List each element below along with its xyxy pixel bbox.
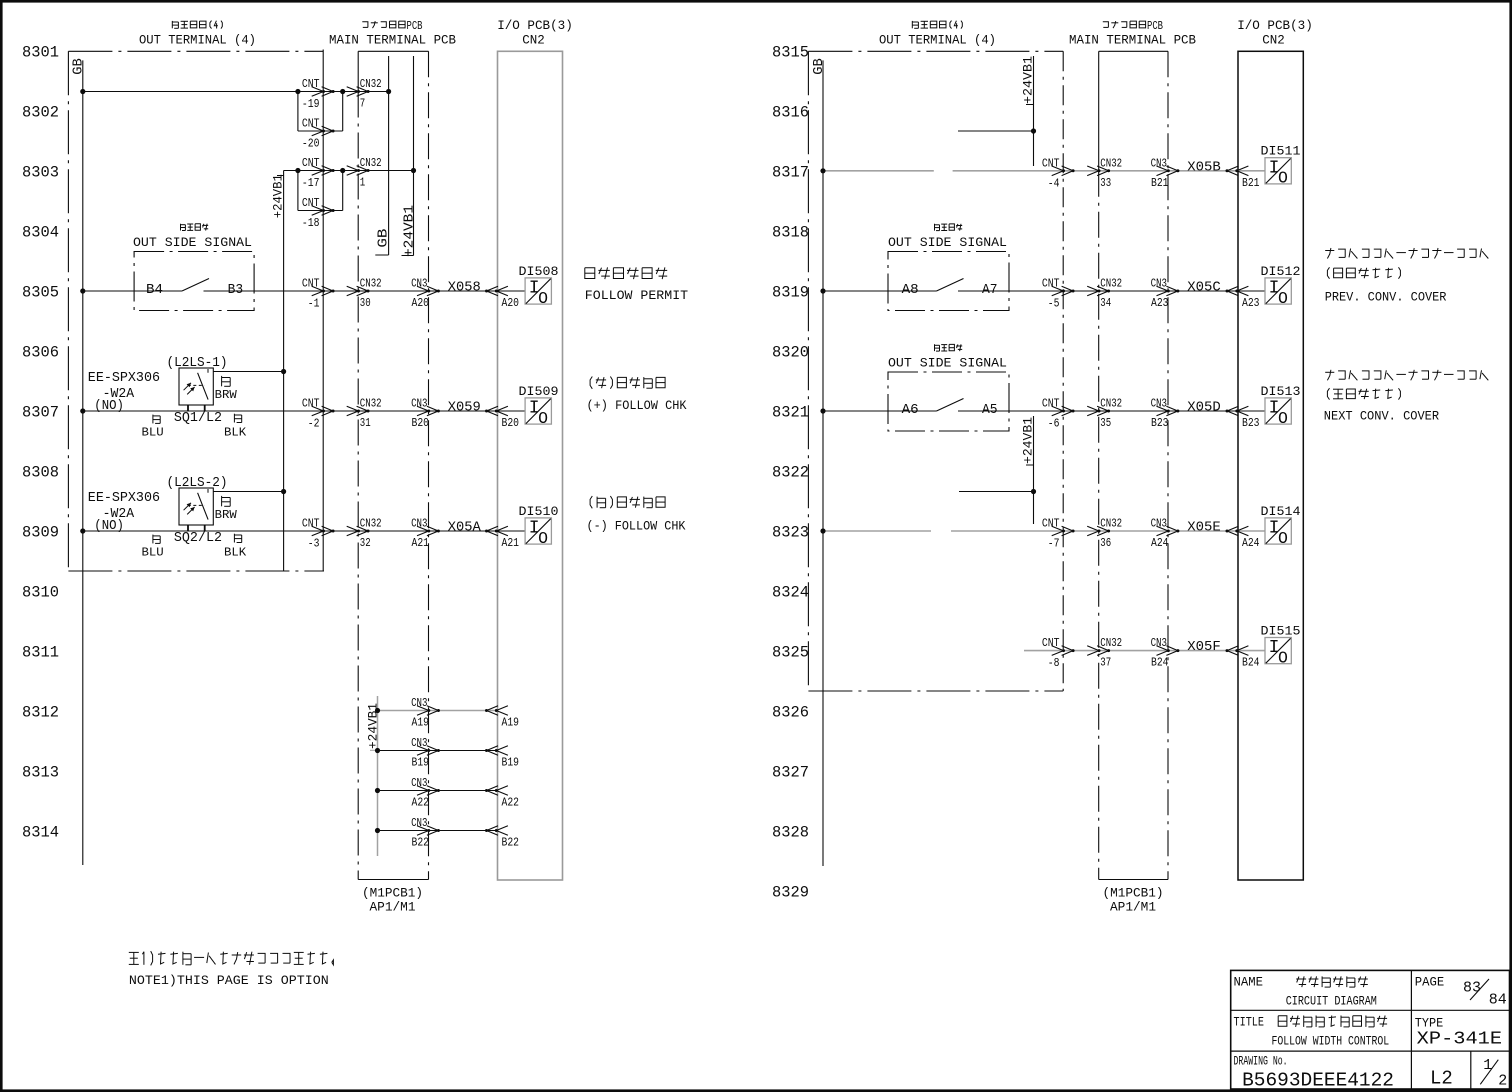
connector CNT-6 bbox=[1052, 406, 1075, 416]
svg-text:84: 84 bbox=[1489, 992, 1507, 1009]
box OUT SIDE SIGNAL A6-A5 bbox=[888, 372, 1009, 431]
svg-text:A19: A19 bbox=[502, 716, 520, 730]
wire row 8322 to +24VB1 bbox=[959, 491, 1034, 493]
svg-text:CN32: CN32 bbox=[360, 77, 382, 91]
svg-text:O: O bbox=[1278, 289, 1288, 308]
svg-text:(L2LS-2): (L2LS-2) bbox=[167, 476, 228, 491]
MAIN TERMINAL PCB box right bbox=[1099, 51, 1168, 879]
svg-text:8310: 8310 bbox=[22, 584, 59, 602]
label 外部信号 right A8 bbox=[935, 224, 963, 231]
svg-text:83: 83 bbox=[1463, 979, 1481, 996]
label OUT TERMINAL header (JP) right bbox=[912, 21, 962, 29]
svg-text:(M1PCB1): (M1PCB1) bbox=[1103, 886, 1164, 901]
svg-text:CN3: CN3 bbox=[1151, 156, 1167, 170]
wire jumper left -17/-18 bbox=[297, 171, 299, 211]
svg-text:B24: B24 bbox=[1151, 656, 1169, 670]
svg-text:BRW: BRW bbox=[215, 388, 238, 402]
svg-text:GB: GB bbox=[811, 58, 827, 75]
wire X05B connectors to DI bbox=[1063, 170, 1238, 172]
svg-text:8324: 8324 bbox=[772, 584, 809, 602]
svg-text:CN3: CN3 bbox=[411, 517, 427, 531]
svg-text:(L2LS-1): (L2LS-1) bbox=[167, 356, 228, 371]
svg-text:O: O bbox=[1278, 409, 1288, 428]
svg-text:8325: 8325 bbox=[772, 644, 809, 662]
svg-text:DI513: DI513 bbox=[1261, 384, 1301, 399]
svg-text:MAIN TERMINAL PCB: MAIN TERMINAL PCB bbox=[329, 33, 456, 48]
svg-text:CNT: CNT bbox=[302, 397, 320, 411]
slash page bbox=[1470, 979, 1489, 1000]
junction +24VB1 bus L2LS-1 bbox=[281, 369, 286, 374]
svg-text:8313: 8313 bbox=[22, 764, 59, 782]
svg-text:I/O PCB(3): I/O PCB(3) bbox=[1237, 18, 1313, 33]
label （前工程より） bbox=[1327, 267, 1400, 278]
svg-text:A20: A20 bbox=[502, 296, 520, 310]
svg-text:8304: 8304 bbox=[22, 224, 59, 242]
svg-text:8312: 8312 bbox=[22, 704, 59, 722]
svg-text:O: O bbox=[538, 409, 548, 428]
input DI510 bbox=[525, 518, 551, 548]
svg-text:8302: 8302 bbox=[22, 104, 59, 122]
svg-text:8319: 8319 bbox=[772, 284, 809, 302]
svg-text:A19: A19 bbox=[412, 716, 430, 730]
wire jumper right -17/-18 bbox=[342, 171, 344, 211]
svg-text:CN32: CN32 bbox=[1100, 156, 1122, 170]
label 外部信号 right A6 bbox=[935, 344, 963, 351]
switch A6-A5 bbox=[823, 399, 1063, 412]
svg-text:8329: 8329 bbox=[772, 884, 809, 902]
svg-text:BLU: BLU bbox=[142, 426, 164, 440]
connector CN2 B20 bbox=[485, 406, 508, 416]
wire row 8307 bbox=[83, 410, 323, 412]
MAIN TERMINAL PCB box left bbox=[358, 51, 428, 879]
tick +24VB1 right mid bbox=[1026, 464, 1034, 466]
svg-text:(NO): (NO) bbox=[94, 519, 124, 534]
svg-text:B22: B22 bbox=[412, 836, 430, 850]
connector CNT-8 bbox=[1052, 646, 1075, 656]
svg-text:8318: 8318 bbox=[772, 224, 809, 242]
svg-text:X05A: X05A bbox=[448, 520, 482, 536]
junction GB bus A6 bbox=[820, 408, 825, 413]
svg-text:CNT: CNT bbox=[1042, 636, 1060, 650]
label MAIN TERMINAL header (JP) left bbox=[362, 20, 422, 33]
wire +24VB1 to CNT-17/CN32-1 bbox=[284, 170, 414, 172]
svg-text:GB: GB bbox=[71, 58, 87, 75]
junction +24VB1 bus L2LS-2 bbox=[281, 489, 286, 494]
svg-text:B3: B3 bbox=[228, 282, 244, 298]
svg-text:CNT: CNT bbox=[302, 156, 320, 170]
wire X05C connectors to DI bbox=[1063, 290, 1238, 292]
svg-text:NEXT CONV. COVER: NEXT CONV. COVER bbox=[1324, 408, 1440, 423]
connector CN32-32 bbox=[347, 526, 370, 536]
svg-text:B20: B20 bbox=[412, 416, 430, 430]
junction GB bus row8301 bbox=[80, 89, 85, 94]
wire GB bus left bbox=[82, 60, 84, 865]
svg-text:1: 1 bbox=[360, 176, 365, 190]
junction GB bus A8 bbox=[820, 288, 825, 293]
svg-text:CN3: CN3 bbox=[411, 776, 427, 790]
svg-text:A23: A23 bbox=[1242, 296, 1260, 310]
svg-text:O: O bbox=[1278, 169, 1288, 188]
junction GB bus row8307 bbox=[80, 408, 85, 413]
svg-text:CNT: CNT bbox=[302, 517, 320, 531]
wire BRW L2LS-2 to +24VB1 bus bbox=[213, 491, 283, 493]
connector CN3-A24 bbox=[1157, 526, 1180, 536]
input DI508 bbox=[525, 278, 551, 308]
label 電気回路線図 bbox=[1296, 976, 1368, 987]
connector CNT-18 bbox=[312, 206, 335, 216]
connector CN3-B24 bbox=[1157, 646, 1180, 656]
input DI509 bbox=[525, 398, 551, 428]
svg-text:CN2: CN2 bbox=[522, 33, 545, 48]
svg-text:8307: 8307 bbox=[22, 404, 59, 422]
connector CN2 B19 bbox=[485, 746, 508, 756]
label 黒 L2LS-2 bbox=[234, 534, 241, 543]
connector CN3-A19 bbox=[417, 706, 440, 716]
svg-text:(NO): (NO) bbox=[94, 399, 124, 414]
svg-text:-17: -17 bbox=[302, 176, 320, 190]
junction GB stub row8301 bbox=[386, 89, 391, 94]
connector CNT-4 bbox=[1052, 166, 1075, 176]
connector CN3-A23 bbox=[1157, 286, 1180, 296]
connector CN2 A19 bbox=[485, 706, 508, 716]
wire X05F connectors to DI bbox=[1063, 650, 1238, 652]
svg-text:CNT: CNT bbox=[1042, 156, 1060, 170]
label 追従許可入力 bbox=[585, 267, 667, 279]
junction GB bus row8317 bbox=[820, 168, 825, 173]
svg-text:36: 36 bbox=[1100, 536, 1111, 550]
wire row 8316 to +24VB1 bbox=[958, 130, 1034, 132]
svg-text:X05D: X05D bbox=[1187, 400, 1221, 416]
svg-text:SQ1/L2: SQ1/L2 bbox=[174, 411, 222, 426]
svg-text:CN2: CN2 bbox=[1262, 33, 1285, 48]
svg-text:8317: 8317 bbox=[772, 164, 809, 182]
input DI513 bbox=[1265, 398, 1291, 428]
connector CN3-A20 bbox=[417, 286, 440, 296]
svg-text:8309: 8309 bbox=[22, 524, 59, 542]
tick GB mid bbox=[375, 254, 388, 256]
wire row y650.6 (X05F) bbox=[1024, 650, 1063, 652]
svg-text:(M1PCB1): (M1PCB1) bbox=[362, 886, 423, 901]
svg-text:BLK: BLK bbox=[224, 426, 247, 440]
svg-text:7: 7 bbox=[360, 97, 365, 111]
connector CN2 B23 right bbox=[1226, 406, 1249, 416]
junction +24VB1 stub B19 bbox=[375, 748, 380, 753]
svg-text:32: 32 bbox=[360, 536, 371, 550]
svg-text:X05B: X05B bbox=[1187, 159, 1221, 175]
box OUT SIDE SIGNAL A8-A7 bbox=[888, 252, 1009, 311]
label (+)追従確認 bbox=[590, 377, 665, 389]
switch B4-B3 bbox=[83, 279, 323, 292]
connector CN3-B22 bbox=[417, 826, 440, 836]
svg-text:NOTE1)THIS PAGE IS OPTION: NOTE1)THIS PAGE IS OPTION bbox=[129, 974, 329, 988]
connector CN32-33 bbox=[1087, 166, 1110, 176]
connector CNT-19 bbox=[312, 87, 335, 97]
svg-text:35: 35 bbox=[1100, 416, 1111, 430]
svg-text:+24VB1: +24VB1 bbox=[271, 174, 286, 218]
svg-text:34: 34 bbox=[1100, 296, 1111, 310]
net stub GB mid bbox=[388, 56, 390, 255]
svg-text:B23: B23 bbox=[1242, 416, 1260, 430]
svg-text:CNT: CNT bbox=[302, 277, 320, 291]
connector CN3-B23 bbox=[1157, 406, 1180, 416]
net stub +24VB1 bottom left (gray) bbox=[377, 696, 379, 856]
svg-text:8321: 8321 bbox=[772, 404, 809, 422]
junction +24VB1 stub B22 bbox=[375, 828, 380, 833]
svg-text:DI509: DI509 bbox=[519, 384, 559, 399]
svg-text:O: O bbox=[538, 289, 548, 308]
svg-text:OUT TERMINAL (4): OUT TERMINAL (4) bbox=[139, 33, 256, 48]
svg-text:A24: A24 bbox=[1151, 536, 1169, 550]
svg-text:OUT SIDE SIGNAL: OUT SIDE SIGNAL bbox=[888, 355, 1007, 370]
connector CN3-B21 bbox=[1157, 166, 1180, 176]
label 黒 L2LS-1 bbox=[234, 414, 241, 423]
connector CN2 A21 bbox=[485, 526, 508, 536]
svg-text:B: B bbox=[1158, 20, 1163, 33]
wire X05E connectors to DI bbox=[1063, 530, 1238, 532]
junction +24VB1 stub A19 bbox=[375, 708, 380, 713]
connector CNT-17 bbox=[312, 166, 335, 176]
svg-text:X05F: X05F bbox=[1187, 639, 1221, 655]
input DI514 bbox=[1265, 518, 1291, 548]
svg-text:FOLLOW PERMIT: FOLLOW PERMIT bbox=[585, 288, 688, 303]
svg-text:A21: A21 bbox=[412, 536, 430, 550]
net stub +24VB1 right mid bbox=[1033, 416, 1035, 524]
svg-text:O: O bbox=[1278, 529, 1288, 548]
pins L2LS-1 to wire bbox=[187, 405, 189, 411]
connector CN3-B20 bbox=[417, 406, 440, 416]
svg-text:2: 2 bbox=[1498, 1072, 1507, 1089]
connector CN2 B22 bbox=[485, 826, 508, 836]
svg-text:CN3: CN3 bbox=[411, 816, 427, 830]
svg-text:CN32: CN32 bbox=[360, 156, 382, 170]
svg-text:CN3: CN3 bbox=[411, 696, 427, 710]
svg-text:OUT SIDE SIGNAL: OUT SIDE SIGNAL bbox=[133, 235, 252, 250]
connector CN32-31 bbox=[347, 406, 370, 416]
svg-text:A23: A23 bbox=[1151, 296, 1169, 310]
svg-text:B20: B20 bbox=[502, 416, 520, 430]
wire row 8309 bbox=[83, 530, 323, 532]
svg-text:8303: 8303 bbox=[22, 164, 59, 182]
wire GB to CNT-19/CN32-7 bbox=[83, 91, 389, 93]
svg-text:X05E: X05E bbox=[1187, 520, 1221, 536]
wire jumper left -19/-20 bbox=[297, 92, 299, 132]
svg-text:A8: A8 bbox=[902, 282, 919, 298]
svg-text:BRW: BRW bbox=[215, 508, 238, 522]
connector CN32-36 bbox=[1087, 526, 1110, 536]
connector CNT-7 bbox=[1052, 526, 1075, 536]
label MAIN TERMINAL header (JP) right bbox=[1103, 20, 1163, 33]
label コンベヤカバーインターロック 1 bbox=[1325, 248, 1488, 259]
svg-text:O: O bbox=[538, 529, 548, 548]
svg-text:CN3: CN3 bbox=[411, 736, 427, 750]
connector CN32-7 bbox=[347, 87, 370, 97]
svg-text:B21: B21 bbox=[1151, 176, 1169, 190]
junction jumper left CNT-19 bbox=[295, 89, 300, 94]
svg-text:MAIN TERMINAL PCB: MAIN TERMINAL PCB bbox=[1069, 33, 1196, 48]
connector CN3-A22 bbox=[417, 786, 440, 796]
svg-text:CN32: CN32 bbox=[1100, 636, 1122, 650]
I/O PCB(3) CN2 box left bbox=[498, 51, 563, 880]
label 外部信号 left bbox=[181, 224, 209, 231]
label OUT TERMINAL header (JP) left bbox=[172, 21, 222, 29]
connector CNT-1 bbox=[312, 286, 335, 296]
label 青 L2LS-2 bbox=[153, 535, 160, 544]
svg-text:PAGE: PAGE bbox=[1415, 976, 1444, 990]
svg-text:A7: A7 bbox=[982, 282, 998, 298]
svg-text:L2: L2 bbox=[1430, 1067, 1453, 1089]
svg-text:X058: X058 bbox=[448, 280, 481, 296]
svg-text:OUT SIDE SIGNAL: OUT SIDE SIGNAL bbox=[888, 235, 1007, 250]
svg-text:-8: -8 bbox=[1048, 656, 1060, 670]
connector CNT-2 bbox=[312, 406, 335, 416]
svg-text:8306: 8306 bbox=[22, 344, 59, 362]
wire row B19 bbox=[378, 750, 498, 752]
sensor SQ2/L2 L2LS-2 bbox=[179, 488, 213, 525]
connector CNT-20 bbox=[312, 126, 335, 136]
svg-text:B24: B24 bbox=[1242, 656, 1260, 670]
svg-text:-19: -19 bbox=[302, 97, 320, 111]
svg-text:8316: 8316 bbox=[772, 104, 809, 122]
svg-text:8320: 8320 bbox=[772, 344, 809, 362]
connector CN2 B24 right bbox=[1226, 646, 1249, 656]
junction GB bus row8309 bbox=[80, 528, 85, 533]
svg-text:-1: -1 bbox=[308, 297, 320, 311]
svg-text:8305: 8305 bbox=[22, 284, 59, 302]
junction GB bus row8305 bbox=[80, 288, 85, 293]
wire row B22 bbox=[378, 830, 498, 832]
svg-text:B19: B19 bbox=[412, 756, 430, 770]
svg-text:1: 1 bbox=[1483, 1057, 1492, 1074]
wire row A19 bbox=[378, 710, 498, 712]
svg-text:CN3: CN3 bbox=[1151, 636, 1167, 650]
wire row y291 CNT to DI (X058) bbox=[323, 290, 497, 292]
svg-text:EE-SPX306: EE-SPX306 bbox=[88, 371, 160, 386]
svg-text:+24VB1: +24VB1 bbox=[1021, 417, 1036, 464]
junction GB bus row8323 bbox=[820, 528, 825, 533]
svg-text:B22: B22 bbox=[502, 836, 520, 850]
svg-text:-20: -20 bbox=[302, 137, 320, 151]
junction +24VB1 stub A22 bbox=[375, 788, 380, 793]
wire +24VB1 bus left bbox=[283, 171, 285, 572]
svg-text:-4: -4 bbox=[1048, 176, 1060, 190]
svg-text:DI512: DI512 bbox=[1261, 264, 1301, 279]
wire BRW L2LS-1 to +24VB1 bus bbox=[213, 371, 283, 373]
svg-text:B4: B4 bbox=[146, 282, 163, 298]
svg-text:CNT: CNT bbox=[302, 77, 320, 91]
svg-text:-3: -3 bbox=[308, 537, 320, 551]
junction +24VB1 right top bbox=[1031, 128, 1036, 133]
svg-text:X059: X059 bbox=[448, 400, 481, 416]
svg-text:CNT: CNT bbox=[1042, 517, 1060, 531]
svg-text:+24VB1: +24VB1 bbox=[1021, 56, 1036, 104]
svg-text:A21: A21 bbox=[502, 536, 520, 550]
svg-text:DRAWING No.: DRAWING No. bbox=[1234, 1054, 1288, 1068]
wire row A22 bbox=[378, 790, 498, 792]
I/O PCB(3) CN2 box right bbox=[1238, 51, 1303, 880]
svg-text:XP-341E: XP-341E bbox=[1417, 1029, 1502, 1050]
wire GB bus right bbox=[822, 60, 824, 866]
svg-text:-18: -18 bbox=[302, 216, 320, 230]
junction jumper right CNT-17 bbox=[340, 168, 345, 173]
svg-text:CN3: CN3 bbox=[1151, 517, 1167, 531]
svg-text:DI511: DI511 bbox=[1261, 144, 1301, 159]
junction +24VB1 right mid bbox=[1031, 489, 1036, 494]
svg-text:-2: -2 bbox=[308, 417, 320, 431]
title block bbox=[1231, 970, 1510, 1089]
svg-text:CN32: CN32 bbox=[1100, 277, 1122, 291]
svg-text:-6: -6 bbox=[1048, 417, 1060, 431]
svg-text:B23: B23 bbox=[1151, 416, 1169, 430]
wire jumper right -19/-20 bbox=[342, 92, 344, 132]
connector CN2 A24 right bbox=[1226, 526, 1249, 536]
svg-text:CN32: CN32 bbox=[360, 277, 382, 291]
svg-text:SQ2/L2: SQ2/L2 bbox=[174, 531, 222, 546]
junction jumper right CNT-19 bbox=[340, 89, 345, 94]
label 茶 L2LS-1 bbox=[222, 376, 231, 386]
svg-text:A6: A6 bbox=[902, 402, 919, 418]
junction +24VB1 stub row8303 bbox=[411, 168, 416, 173]
label note JP bbox=[129, 951, 334, 965]
wire row y531 CNT to DI (X05A) bbox=[323, 530, 497, 532]
connector CN3-A21 bbox=[417, 526, 440, 536]
svg-text:33: 33 bbox=[1100, 176, 1111, 190]
svg-text:B19: B19 bbox=[502, 756, 520, 770]
svg-text:-5: -5 bbox=[1048, 297, 1060, 311]
OUT TERMINAL (4) box right bbox=[808, 51, 1063, 691]
svg-text:B21: B21 bbox=[1242, 176, 1260, 190]
connector CN32-37 bbox=[1087, 646, 1110, 656]
svg-text:8308: 8308 bbox=[22, 464, 59, 482]
svg-text:+24VB1: +24VB1 bbox=[402, 205, 418, 257]
OUT TERMINAL (4) box left bbox=[68, 50, 324, 572]
svg-text:B5693DEEE4122: B5693DEEE4122 bbox=[1242, 1069, 1394, 1091]
tick +24VB1 mid bbox=[402, 255, 414, 257]
svg-text:AP1/M1: AP1/M1 bbox=[1110, 900, 1156, 915]
wire CNT-20 row bbox=[298, 130, 343, 132]
tick +24VB1 bus label bbox=[277, 175, 284, 177]
svg-text:GB: GB bbox=[376, 229, 392, 248]
svg-text:PREV. CONV. COVER: PREV. CONV. COVER bbox=[1325, 289, 1447, 304]
connector CNT-5 bbox=[1052, 286, 1075, 296]
svg-text:CN3: CN3 bbox=[411, 397, 427, 411]
label 青 L2LS-1 bbox=[153, 415, 160, 424]
svg-text:CN32: CN32 bbox=[360, 517, 382, 531]
svg-text:DI510: DI510 bbox=[519, 504, 559, 519]
svg-text:CNT: CNT bbox=[302, 117, 320, 131]
svg-text:CNT: CNT bbox=[1042, 397, 1060, 411]
input DI515 bbox=[1265, 638, 1291, 668]
svg-text:A20: A20 bbox=[412, 296, 430, 310]
svg-text:(+) FOLLOW CHK: (+) FOLLOW CHK bbox=[587, 398, 687, 413]
net stub +24VB1 mid bbox=[413, 56, 415, 256]
svg-text:CN3: CN3 bbox=[1151, 277, 1167, 291]
connector CN3-B19 bbox=[417, 746, 440, 756]
connector CN2 A23 right bbox=[1226, 286, 1249, 296]
svg-text:DI514: DI514 bbox=[1261, 504, 1301, 519]
input DI511 bbox=[1265, 158, 1291, 188]
connector CN2 A20 bbox=[485, 286, 508, 296]
svg-text:NAME: NAME bbox=[1234, 976, 1264, 990]
label 追従巾決め制御回路 bbox=[1278, 1016, 1387, 1027]
connector CN32-30 bbox=[347, 286, 370, 296]
svg-text:37: 37 bbox=[1100, 656, 1111, 670]
wire row y531 (X05E) bbox=[823, 530, 931, 532]
svg-text:A24: A24 bbox=[1242, 536, 1260, 550]
svg-text:O: O bbox=[1278, 648, 1288, 667]
svg-text:8323: 8323 bbox=[772, 524, 809, 542]
svg-text:CNT: CNT bbox=[1042, 277, 1060, 291]
slash sheet bbox=[1480, 1060, 1498, 1085]
